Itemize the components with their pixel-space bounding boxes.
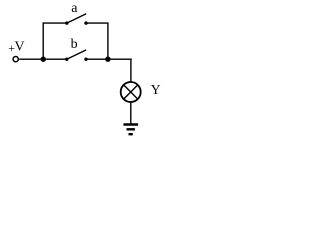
wire left branch vertical [42, 22, 44, 59]
wire top to switch a [43, 22, 67, 24]
node right junction [105, 57, 110, 62]
wire switch a right to right branch [86, 22, 108, 24]
lamp Y [121, 82, 141, 102]
svg-text:V: V [15, 40, 25, 55]
wire down to lamp [130, 59, 132, 82]
svg-text:a: a [71, 1, 78, 16]
terminal +V [13, 57, 18, 62]
switch b [65, 50, 88, 61]
wire terminal to switch b left [19, 58, 67, 60]
svg-text:Y: Y [151, 82, 161, 97]
wire switch b right to lamp corner [86, 58, 132, 60]
ground [123, 125, 138, 135]
wire lamp to ground [130, 103, 132, 125]
node left junction [41, 57, 46, 62]
wire right branch vertical [107, 22, 109, 59]
switch a [65, 14, 88, 25]
svg-text:b: b [71, 37, 78, 52]
